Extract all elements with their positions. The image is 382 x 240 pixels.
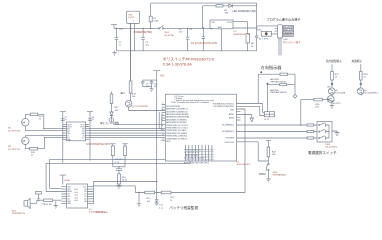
junction dots lower — [300, 124, 301, 125]
capacitor C7 bypass — [61, 119, 65, 121]
resistor R26 row2 — [280, 84, 287, 86]
wire M2 top — [25, 136, 62, 138]
svg-text:VDD_3.3V: VDD_3.3V — [284, 30, 294, 32]
svg-text:M: M — [23, 139, 26, 143]
connector CN2 pin pads — [275, 27, 284, 35]
wire regulator gnd pin — [221, 29, 223, 51]
svg-text:AN4/QEA/IC7/CN6/RB4: AN4/QEA/IC7/CN6/RB4 — [166, 118, 186, 121]
capacitor C5 104 — [246, 34, 249, 43]
wire fuse drop — [150, 3, 152, 28]
resistor R21 sw1 — [307, 124, 314, 126]
IC3 motor driver box — [67, 122, 86, 141]
svg-text:GND: GND — [218, 27, 223, 29]
svg-text:1u: 1u — [65, 119, 67, 121]
svg-text:ポリスイッチ#F-RXE030/72-0: ポリスイッチ#F-RXE030/72-0 — [163, 57, 214, 62]
svg-text:0.3A 1-3(V)78.6A: 0.3A 1-3(V)78.6A — [163, 62, 193, 66]
buzzer BZ1 — [24, 201, 28, 206]
wire ICSP supply drop — [256, 3, 258, 28]
svg-text:AN2/SS1/LVDIN/CN4/RB2: AN2/SS1/LVDIN/CN4/RB2 — [166, 113, 188, 116]
resistor R20 10k base — [314, 98, 322, 101]
wire mcu under-pass 1 — [50, 159, 166, 188]
svg-text:再生ブレーキ有効: 再生ブレーキ有効 — [100, 121, 120, 125]
ground C13 — [155, 203, 159, 206]
svg-text:F G D D S S C C S: F G D D S S C C S — [185, 150, 202, 152]
regulator U2 box — [210, 20, 233, 29]
resistor R27 1k — [331, 72, 334, 81]
svg-text:3V3: 3V3 — [160, 75, 165, 78]
svg-text:R27: R27 — [335, 74, 340, 76]
wire switch common to gnd — [332, 131, 337, 133]
svg-text:0--0: 0--0 — [75, 197, 78, 199]
svg-text:35V: 35V — [179, 31, 183, 33]
diode D3 led — [223, 4, 257, 7]
svg-text:RC13/EMUD1: RC13/EMUD1 — [222, 125, 234, 127]
svg-text:PGD/PGC: PGD/PGC — [284, 35, 293, 37]
capacitor C9 104 — [141, 80, 157, 87]
resonator X1 block — [257, 29, 262, 31]
driver right pin stubs — [86, 124, 90, 139]
svg-text:10k: 10k — [115, 110, 119, 112]
svg-text:MCLR/VPP: MCLR/VPP — [284, 27, 294, 29]
pad sensor1 — [331, 83, 333, 85]
svg-text:22: 22 — [31, 155, 34, 157]
svg-text:C2: C2 — [145, 42, 149, 44]
svg-text:R10: R10 — [39, 116, 44, 118]
wire sw line 2 — [241, 131, 308, 133]
power flag 3V3 battery ic — [60, 175, 66, 184]
power flag VCC driver right — [87, 112, 93, 161]
svg-text:C14 22p M6x: C14 22p M6x — [95, 212, 109, 214]
ground symbol rail left — [112, 51, 116, 56]
wire prg line — [241, 142, 269, 161]
IC5 battery monitor box — [67, 184, 88, 208]
junction dots bus — [116, 28, 117, 29]
svg-text:PWM2L/RE2 24 U1ATX: PWM2L/RE2 24 U1ATX — [166, 129, 187, 132]
svg-text:CN2: CN2 — [283, 39, 288, 41]
ground sensor1 — [330, 104, 334, 109]
wire regen line — [114, 124, 162, 126]
capacitor C1 1u — [115, 28, 118, 50]
connector J3 pickup — [264, 112, 274, 117]
svg-text:3V3A: 3V3A — [64, 179, 70, 182]
power flag PRG pullup — [266, 141, 271, 147]
mcu bottom pin columns — [186, 145, 212, 161]
svg-text:DC MOTOR: DC MOTOR — [8, 149, 20, 151]
motor M1 — [22, 119, 29, 126]
svg-text:AVDD: AVDD — [229, 113, 235, 116]
power flag VIN — [111, 24, 117, 26]
svg-text:1k: 1k — [170, 200, 173, 202]
svg-text:PWM1H/RE1 25 OC1/IC1: PWM1H/RE1 25 OC1/IC1 — [166, 128, 188, 130]
svg-text:LED POWER(D3+R5): LED POWER(D3+R5) — [232, 10, 256, 13]
svg-text:0.1u: 0.1u — [159, 207, 164, 209]
capacitor C6 104 — [255, 28, 258, 51]
capacitor C13 0.1u — [155, 199, 158, 203]
connector CN2 ICSP box — [278, 25, 283, 38]
svg-text:R20: R20 — [315, 104, 320, 106]
wire osc risers — [159, 112, 162, 131]
power arrow down — [250, 118, 254, 122]
wire sensor base branch — [301, 100, 314, 125]
switch SW1 power — [159, 28, 160, 29]
svg-text:104: 104 — [154, 86, 157, 88]
svg-text:DTC143ZE: DTC143ZE — [335, 93, 346, 95]
svg-text:PKM13EPYH: PKM13EPYH — [12, 213, 26, 215]
svg-text:Q2 TPS2041B/P: Q2 TPS2041B/P — [132, 106, 149, 108]
wire prg node — [267, 157, 269, 163]
wire sw line 3 — [241, 137, 308, 139]
transistor Q3 lower — [327, 96, 334, 103]
svg-text:8: 8 — [162, 125, 163, 127]
svg-text:2SC2712: 2SC2712 — [332, 103, 342, 105]
svg-text:U1: U1 — [237, 161, 241, 163]
svg-text:PWM3L/RE4 22 EMUD2: PWM3L/RE4 22 EMUD2 — [166, 136, 187, 138]
svg-text:VOUT: VOUT — [227, 22, 233, 24]
wire M2 bottom — [25, 138, 62, 149]
svg-text:IC3 TA7291P/SLA7070: IC3 TA7291P/SLA7070 — [86, 143, 110, 146]
svg-text:GN: GN — [84, 201, 87, 203]
wire M1 bottom — [25, 126, 62, 131]
svg-text:VIN: VIN — [212, 22, 216, 24]
power flag divider R17 — [122, 144, 128, 146]
svg-text:R19 100: R19 100 — [45, 204, 52, 206]
svg-text:U2: U2 — [234, 31, 238, 33]
wire bottom bus — [135, 109, 245, 193]
svg-text:1k: 1k — [335, 77, 338, 79]
svg-text:22: 22 — [39, 119, 42, 121]
svg-text:R24: R24 — [272, 152, 277, 154]
wire M1 feed — [44, 128, 63, 130]
svg-text:1k: 1k — [251, 46, 254, 48]
diode D5 regen column — [110, 92, 113, 123]
IC4 mcu box — [165, 94, 236, 161]
svg-text:C13: C13 — [159, 205, 164, 207]
svg-text:POWERSW(TBD): POWERSW(TBD) — [134, 32, 153, 34]
wire avdd arrow drop — [241, 115, 252, 119]
svg-text:前方検知端子: 前方検知端子 — [326, 59, 342, 63]
svg-text:電源選択スイッチ: 電源選択スイッチ — [308, 150, 337, 155]
svg-text:dsPIC30F4012: dsPIC30F4012 — [237, 164, 252, 166]
svg-text:R22: R22 — [170, 197, 175, 199]
svg-text:AN0/VREF+/CN2/RB0 17: AN0/VREF+/CN2/RB0 17 — [166, 108, 188, 111]
resistor R22 sw2 — [307, 130, 314, 132]
power flag divider R16 — [110, 144, 116, 146]
capacitor C11 divider — [116, 167, 122, 174]
mcu bottom pin dense marks — [185, 148, 214, 150]
LED indicator row1 — [258, 74, 295, 103]
svg-text:1u: 1u — [119, 45, 122, 47]
resistor R18 10k — [145, 191, 155, 194]
svg-text:R18: R18 — [122, 177, 127, 179]
svg-text:VDD: VDD — [230, 110, 235, 112]
svg-text:*PGD: Unusable state when ICSP: *PGD: Unusable state when ICSP is enable… — [171, 101, 209, 104]
svg-text:SS-2P1A: SS-2P1A — [164, 34, 174, 37]
svg-text:1u: 1u — [92, 119, 94, 121]
resistor R13 EN — [129, 81, 132, 93]
wire sw line 1 — [241, 124, 308, 126]
svg-text:SW3: SW3 — [325, 144, 331, 146]
component box buzzer drive — [36, 192, 42, 195]
svg-text:R21: R21 — [147, 198, 152, 200]
svg-text:プログラム書き込み端子: プログラム書き込み端子 — [267, 16, 301, 21]
svg-text:10k: 10k — [272, 154, 276, 156]
svg-text:0--0: 0--0 — [75, 192, 78, 194]
svg-text:M1: M1 — [8, 128, 12, 130]
svg-text:C4 47u(6.3V)/OS-CON: C4 47u(6.3V)/OS-CON — [191, 41, 218, 45]
svg-text:104: 104 — [146, 86, 149, 88]
mcu left pin numbers — [162, 103, 164, 140]
sensor2 pullup chain — [360, 64, 362, 88]
svg-text:AVSS: AVSS — [229, 117, 235, 120]
svg-text:M: M — [23, 120, 26, 124]
ground under C10 — [149, 89, 153, 92]
resistor R28 1k — [360, 72, 363, 81]
svg-text:AN1/VREF-/CN3/RB1 18: AN1/VREF-/CN3/RB1 18 — [166, 110, 187, 113]
resistor R10 22 — [30, 113, 38, 116]
svg-text:VDD: VDD — [166, 141, 171, 143]
wire bat out up — [93, 182, 156, 187]
svg-text:SW4: SW4 — [273, 172, 279, 174]
svg-text:10k: 10k — [132, 96, 136, 98]
svg-text:AVDD AVSS VDD VSS OSC2: AVDD AVSS VDD VSS OSC2 — [184, 162, 209, 165]
svg-text:INT0/RE8: INT0/RE8 — [226, 138, 234, 140]
svg-text:PGC/EMUC/U1RX/SDI1: PGC/EMUC/U1RX/SDI1 — [214, 106, 235, 108]
resistor R11 22 — [30, 147, 38, 150]
wire ICSP bottom stubs — [279, 38, 281, 56]
svg-text:MCLR/VPP/RE5: MCLR/VPP/RE5 — [166, 106, 180, 108]
svg-text:RC14/EMUC1: RC14/EMUC1 — [222, 131, 234, 133]
svg-text:DTC143ZE/Bum: DTC143ZE/Bum — [364, 93, 379, 95]
svg-text:F1: F1 — [153, 18, 156, 20]
ground buzzer — [54, 201, 58, 208]
svg-text:R28: R28 — [364, 74, 369, 76]
wire bat right bus — [91, 187, 93, 204]
transistor U5 DTC — [328, 88, 335, 95]
wire LED loop vertical — [203, 6, 216, 28]
svg-text:PGD/EMUD/U1TX/SDO1: PGD/EMUD/U1TX/SDO1 — [213, 103, 234, 105]
svg-text:U7: U7 — [89, 209, 93, 211]
pushbutton SW4 PRG — [268, 163, 269, 164]
capacitor C4 47u OS-CON — [186, 28, 189, 50]
sensor1 pullup chain — [331, 64, 333, 88]
capacitor C12 buzzer — [37, 194, 40, 203]
resistor R24 prg 10k — [267, 147, 270, 157]
resistor R16 24.9k — [118, 174, 121, 184]
wire top supply horizontal — [151, 2, 257, 4]
battery ic right stubs — [87, 187, 91, 204]
connector TB1 power jack — [127, 11, 140, 23]
svg-text:330: 330 — [224, 12, 228, 14]
ground switch — [335, 133, 340, 138]
mcu left pin stubs — [162, 105, 166, 141]
capacitor C2 10u — [141, 28, 144, 50]
svg-text:SW1: SW1 — [164, 32, 170, 34]
wire EN drop — [130, 24, 132, 82]
svg-text:GND: GND — [67, 203, 72, 205]
divider resistor R14 — [111, 146, 114, 156]
svg-text:24.9k: 24.9k — [122, 180, 128, 182]
transistor U6 DTC — [357, 88, 364, 95]
transistor Q1 EN — [125, 100, 132, 107]
svg-text:0--0: 0--0 — [75, 195, 78, 197]
capacitor C3 column — [202, 28, 205, 51]
wire resistors to switch — [314, 125, 317, 138]
ground rail — [117, 50, 257, 52]
svg-text:TB1: TB1 — [128, 15, 133, 17]
wire TB1 lead left — [130, 24, 132, 82]
wire icsp-pgc L — [241, 106, 265, 115]
svg-text:SS-22SDP2: SS-22SDP2 — [325, 147, 338, 149]
resistor R12 10k — [110, 94, 113, 104]
svg-text:1k: 1k — [364, 77, 367, 79]
svg-text:R16 R17: R16 R17 — [115, 159, 124, 161]
svg-text:10u: 10u — [145, 45, 149, 47]
svg-text:AN3/INDX/OCFA/CN5/RB3: AN3/INDX/OCFA/CN5/RB3 — [166, 116, 189, 119]
LED block right rail — [294, 74, 296, 94]
resistor R19 1k — [161, 191, 171, 194]
svg-text:0.3A: 0.3A — [153, 20, 158, 23]
wire main input bus — [114, 25, 213, 29]
wire icsp-pgd L — [241, 104, 265, 113]
svg-text:PWM2H/RE3 23 U1ARX: PWM2H/RE3 23 U1ARX — [166, 132, 187, 135]
wire M1 top — [25, 114, 44, 128]
svg-text:C1: C1 — [119, 42, 123, 44]
wire mcu under-pass 2 — [46, 161, 190, 192]
svg-text:R11: R11 — [31, 152, 36, 154]
svg-text:OSR5JA3Z74A 330: OSR5JA3Z74A 330 — [270, 80, 287, 83]
svg-text:GND/VSS: GND/VSS — [284, 32, 293, 34]
wire regulator output — [233, 22, 278, 34]
svg-text:バッテリ残量監視: バッテリ残量監視 — [169, 205, 198, 210]
svg-text:DC2.1: DC2.1 — [128, 17, 135, 19]
wire driver to MCU bus — [89, 129, 162, 138]
junction marks LED rows — [261, 71, 263, 73]
pad sensor2 — [360, 83, 362, 85]
resistor R23 sw3 — [307, 137, 314, 139]
svg-text:PRG: PRG — [259, 172, 266, 176]
ground bus left — [137, 193, 141, 207]
power flag 3V3 mcu — [154, 71, 161, 200]
svg-text:M2: M2 — [8, 146, 12, 148]
divider resistor R15 — [124, 146, 127, 156]
wire bat out mid — [93, 186, 135, 193]
svg-text:L T D D S S 1 1 1: L T D D S S 1 1 1 — [185, 152, 200, 154]
svg-text:DC MOTOR: DC MOTOR — [8, 130, 20, 132]
fuse F1 polyswitch — [149, 16, 152, 22]
svg-text:OSR5JA3Z74A 330: OSR5JA3Z74A 330 — [270, 91, 287, 94]
battery ic left stubs — [61, 187, 66, 204]
svg-text:AN5/QEB/IC8/CN7/RB5: AN5/QEB/IC8/CN7/RB5 — [166, 121, 186, 124]
svg-text:SKHHAKA010: SKHHAKA010 — [273, 174, 288, 177]
resistor R5 led — [216, 5, 223, 7]
LED indicator row2 — [268, 85, 296, 112]
svg-text:Vcc: Vcc — [82, 138, 85, 140]
svg-text:PWM3H/RE5 21 EMUC2: PWM3H/RE5 21 EMUC2 — [166, 138, 187, 140]
ground PRG — [266, 179, 270, 182]
svg-text:NJM2845DL1-33: NJM2845DL1-33 — [234, 34, 251, 36]
svg-text:10k: 10k — [315, 107, 319, 109]
svg-text:J3 2P: J3 2P — [264, 119, 270, 121]
svg-text:PWM1L/RE0 26 OC2/IC2: PWM1L/RE0 26 OC2/IC2 — [166, 125, 187, 127]
svg-text:方向指示器: 方向指示器 — [261, 64, 283, 71]
svg-text:1: 1 — [133, 21, 135, 23]
svg-text:OSC1/CLKI: OSC1/CLKI — [224, 142, 234, 144]
ground divider — [116, 184, 121, 188]
motor M2 — [22, 137, 29, 144]
capacitor C8 bypass — [88, 119, 92, 121]
wire TB1 lead right — [134, 24, 136, 51]
svg-text:7.37M: 7.37M — [262, 38, 268, 40]
svg-text:C4: C4 — [189, 29, 193, 31]
switch SW3 select box — [317, 122, 332, 143]
power flag VM driver left — [60, 112, 66, 163]
power arrow LED block — [293, 94, 297, 98]
switch SW3 poles — [319, 124, 320, 125]
mcu right pin stubs — [237, 104, 241, 142]
svg-text:EN: EN — [121, 91, 125, 95]
svg-text:10k: 10k — [147, 201, 151, 203]
svg-text:充電端子: 充電端子 — [352, 59, 363, 63]
svg-text:0--0: 0--0 — [75, 189, 78, 191]
driver left pin stubs — [62, 124, 66, 139]
resistor R17 — [44, 199, 53, 202]
svg-text:0--0: 0--0 — [75, 200, 78, 202]
resistor R25 row1 — [280, 73, 287, 75]
capacitor C10 104 — [143, 80, 154, 89]
svg-text:1: 1 — [278, 40, 279, 42]
